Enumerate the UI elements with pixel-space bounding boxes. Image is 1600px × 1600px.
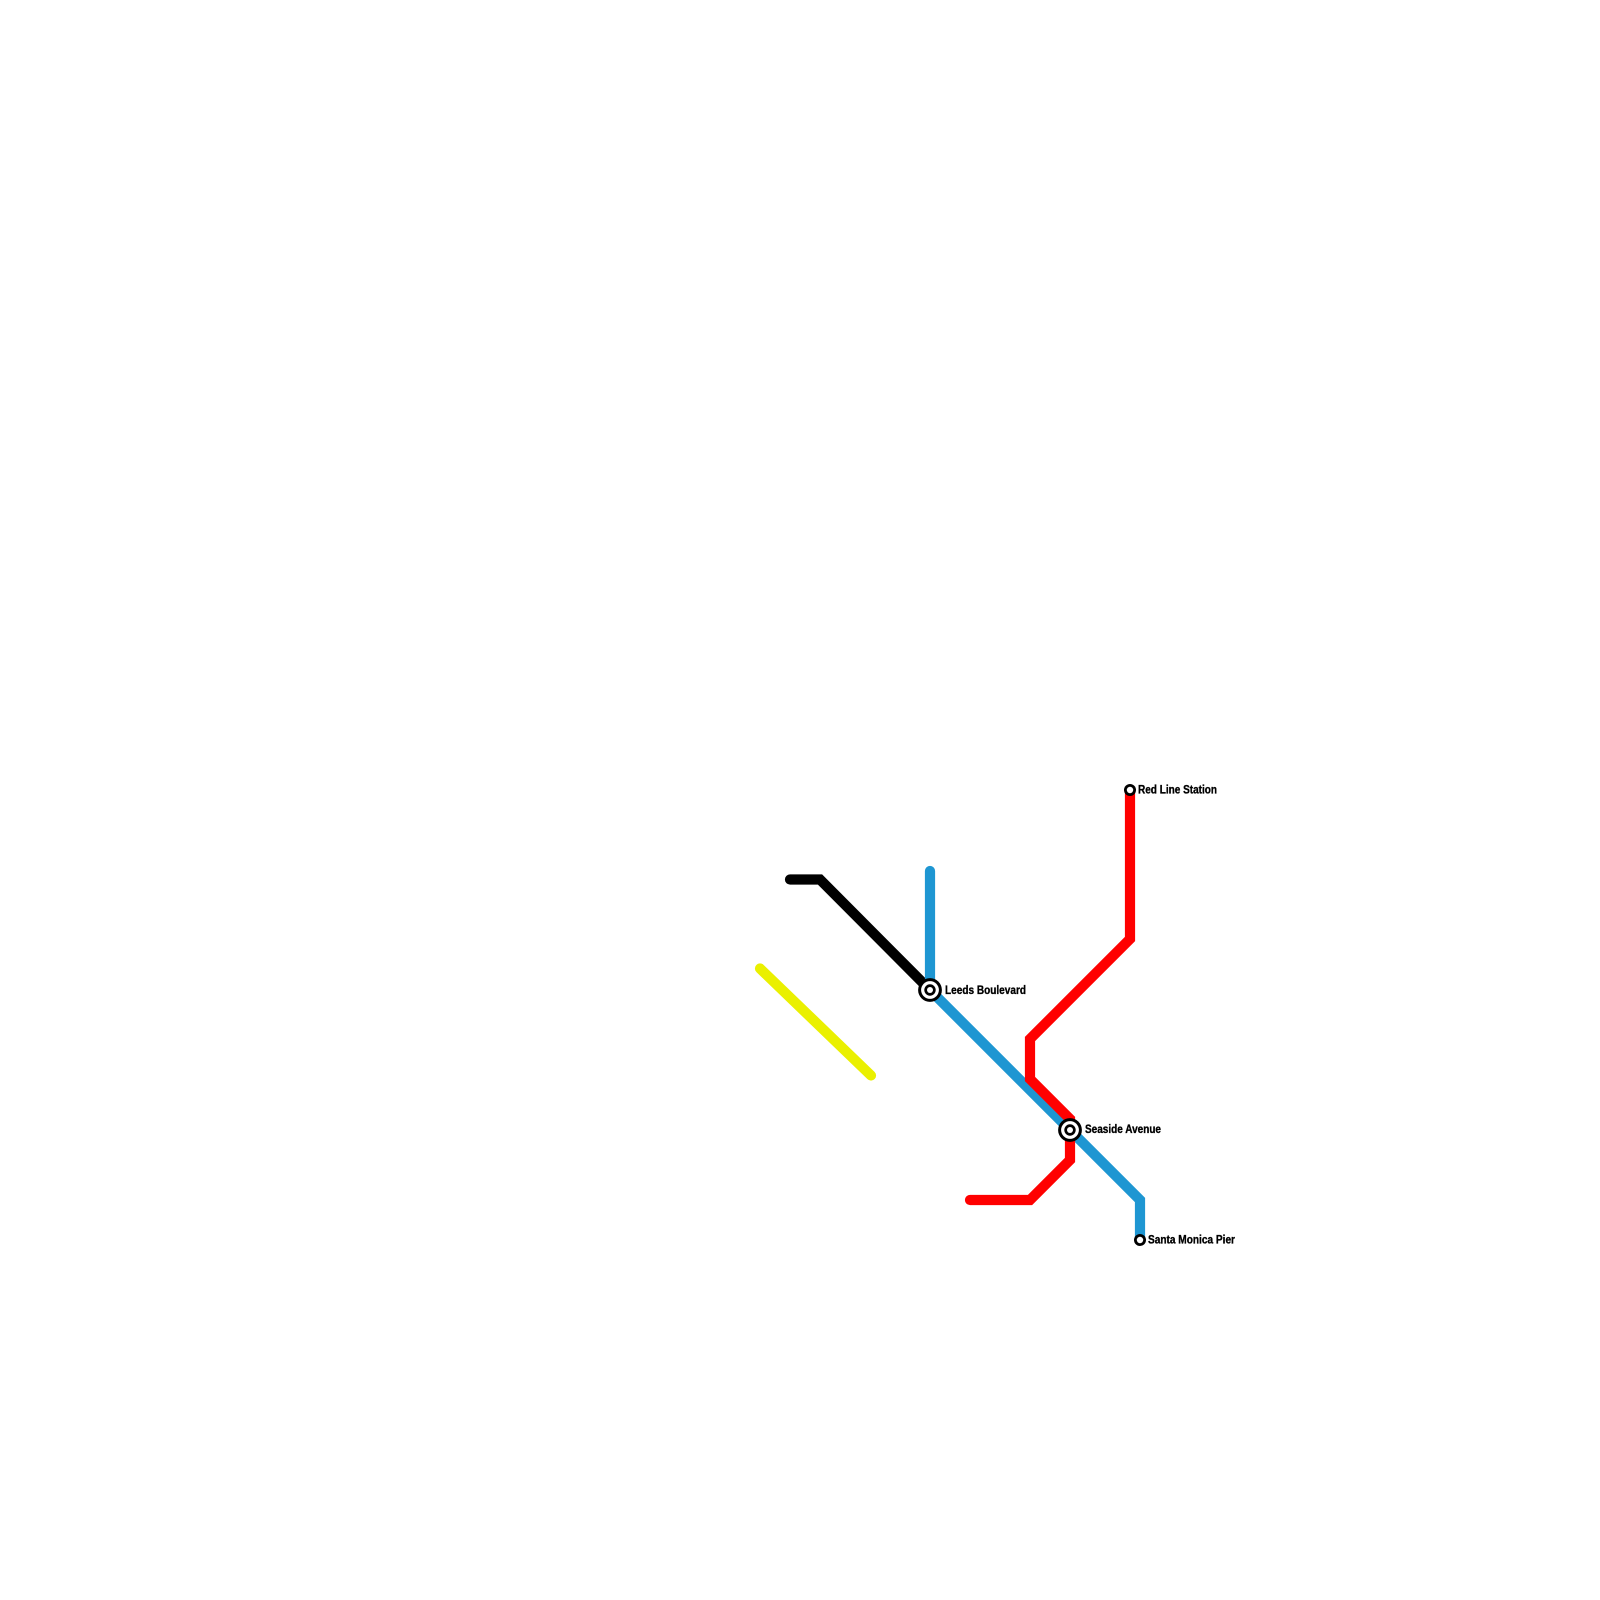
svg-text:Seaside Avenue: Seaside Avenue [1085, 1122, 1161, 1136]
yellow line [760, 969, 871, 1076]
station: Leeds Boulevard (interchange) [918, 978, 1026, 1002]
black line [790, 880, 930, 991]
station: Santa Monica Pier [1134, 1233, 1235, 1247]
station: Red Line Station [1124, 783, 1217, 797]
svg-text:Santa Monica Pier: Santa Monica Pier [1148, 1233, 1235, 1247]
svg-text:Leeds Boulevard: Leeds Boulevard [945, 983, 1026, 997]
red line [970, 790, 1130, 1200]
station: Seaside Avenue (interchange) [1058, 1118, 1161, 1142]
blue line [930, 871, 1140, 1240]
svg-text:Red Line Station: Red Line Station [1138, 783, 1217, 797]
